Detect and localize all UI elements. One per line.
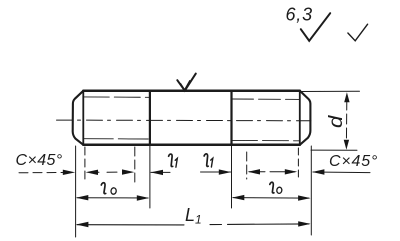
extension line at x=150 below stud (149, 145, 151, 208)
arrow L1 left tip (76, 222, 88, 227)
left chamfer vertical (82, 91, 84, 145)
dimension line l0 right (233, 197, 309, 200)
roughness check plain (348, 24, 368, 41)
arrow left runout left tip at 85.6 (86, 170, 98, 175)
arrow l1 right tip at 231.2 (219, 169, 231, 174)
dimension line L1 (77, 224, 309, 225)
surface mark on stud top (177, 74, 196, 91)
dashed extension right runout (246, 152, 248, 179)
svg-text:L1: L1 (185, 205, 202, 227)
thread root line left top (83, 96, 150, 98)
arrow d bottom (down) (344, 140, 349, 150)
dimension line left runout (89, 171, 131, 173)
arrow leader left Cx45 tip right at 75 (63, 170, 75, 175)
boundary left thread/plain (149, 91, 151, 145)
extension line at x=231.5 below stud (231, 145, 233, 208)
thread root line left bottom (83, 138, 150, 140)
leader line left C x 45 (19, 171, 68, 173)
dimension line d (vertical, dashed) (345, 100, 347, 145)
dimension line l1 left part (151, 171, 170, 173)
label l1 first (script l + subscript 1) (169, 154, 178, 167)
label l0 right (270, 182, 282, 193)
arrow left runout right tip at 134.2 (122, 169, 134, 174)
svg-text:6,3: 6,3 (286, 5, 313, 25)
dimension line l1 right part (201, 171, 231, 173)
arrow L1 right tip (298, 221, 310, 226)
arrow l0 left dim right tip (137, 195, 149, 200)
stud body outline (83, 91, 299, 145)
right chamfer vertical (299, 91, 301, 145)
extension line bottom for d (311, 149, 357, 151)
extension line left end (75, 146, 77, 237)
label l1 second (204, 154, 213, 167)
thread root line right top (232, 98, 300, 100)
boundary plain/right thread (230, 91, 232, 145)
extension line top for d (301, 90, 360, 92)
dashed extension left chamfer (84, 147, 86, 180)
arrow l1 left tip at 150.4 (151, 170, 163, 175)
svg-text:C×45°: C×45° (329, 153, 378, 170)
right chamfered end (300, 91, 311, 145)
dimension line l0 left (77, 197, 148, 199)
dashed extension left runout (134, 147, 136, 184)
roughness check 6,3 (301, 13, 330, 41)
arrowheads (63, 92, 350, 227)
arrow right runout right tip 297 (285, 169, 297, 174)
dimension line right runout (249, 171, 295, 173)
leader line right C x 45 (313, 171, 370, 174)
arrow d top (up) (344, 92, 349, 102)
arrow leader right Cx45 tip left at 311.8 (312, 169, 324, 174)
arrow l0 left dim left tip (76, 195, 88, 200)
centerline (stud axis, dash-dot) (57, 119, 312, 122)
left chamfered end (73, 91, 84, 145)
thread root line right bottom (232, 139, 300, 141)
svg-text:d: d (325, 115, 346, 128)
svg-text:C×45°: C×45° (16, 152, 63, 169)
arrow l0 right dim left tip (232, 195, 244, 200)
dashed extension right chamfer (297, 148, 299, 181)
arrow l0 right dim right tip (298, 195, 310, 200)
arrow right runout left tip 247.6 (248, 169, 260, 174)
label l0 left (script l + subscript 0) (101, 183, 116, 195)
extension line right end (310, 146, 312, 235)
